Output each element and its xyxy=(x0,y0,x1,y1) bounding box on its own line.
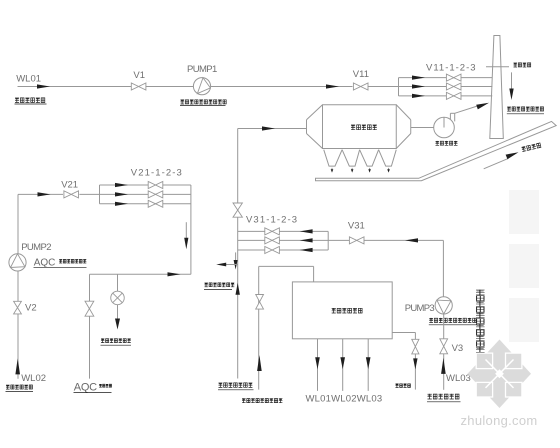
flow arrow before V11 xyxy=(326,84,339,88)
valve on AQC riser xyxy=(85,301,94,309)
valve V21-1 xyxy=(148,182,155,189)
caption tank overflow xyxy=(396,384,411,388)
caption tank makeup water xyxy=(242,398,282,403)
tank outlet arrow 1 xyxy=(315,357,320,369)
watermark ghost column xyxy=(509,190,539,234)
pump PUMP2 xyxy=(9,254,26,271)
hopper 1 discharge arrow xyxy=(331,168,333,170)
fan discharge duct arrow xyxy=(455,106,477,113)
title kiln head waste gas spray process flow xyxy=(476,290,485,353)
svg-text:V11: V11 xyxy=(353,69,369,80)
flow arrow V31-1 xyxy=(300,229,313,233)
svg-text:V21: V21 xyxy=(61,180,78,191)
ESP body box xyxy=(323,105,397,149)
manifold pipe V11-3 xyxy=(399,95,493,97)
caption waste into grate cooler xyxy=(205,283,235,287)
ESP outlet stub xyxy=(410,120,412,134)
label fan xyxy=(436,141,458,146)
pipe PUMP2 to V2 xyxy=(17,271,19,302)
svg-text:V31-1-2-3: V31-1-2-3 xyxy=(246,215,298,226)
svg-text:WL01: WL01 xyxy=(16,73,41,84)
caption grate cooler outlet gas xyxy=(219,383,253,388)
pipe V31 to corner xyxy=(364,239,444,241)
svg-text:V21-1-2-3: V21-1-2-3 xyxy=(131,168,183,179)
caption material into stack bottom xyxy=(507,107,543,112)
svg-text:V2: V2 xyxy=(25,302,37,313)
svg-text:PUMP3: PUMP3 xyxy=(405,303,435,314)
flow meter circle-X xyxy=(111,291,125,305)
tank outlet arrow 2 xyxy=(340,357,345,369)
ESP left hood xyxy=(307,105,323,120)
svg-text:PUMP1: PUMP1 xyxy=(187,64,217,75)
valve V11-2 xyxy=(446,83,453,90)
annotation down arrow beside collector xyxy=(185,222,187,238)
flow arrow toward V31 xyxy=(405,238,418,242)
flow arrow on WL01 pipe xyxy=(37,84,50,88)
AQC riser xyxy=(89,274,91,378)
pipe V3 to WL03 xyxy=(443,354,445,390)
valve V11 xyxy=(353,83,360,90)
svg-text:V31: V31 xyxy=(348,220,365,231)
drain pipe below meter xyxy=(117,305,119,320)
flow arrow V21-3 xyxy=(115,202,128,206)
manifold pipe V31-2 xyxy=(238,239,329,241)
flow up arrow on return riser xyxy=(257,355,262,371)
valve V21-3 xyxy=(148,200,155,207)
flow arrow V11-1 xyxy=(412,76,425,80)
manifold merge header V31 xyxy=(327,231,329,250)
pipe V21 to split xyxy=(79,193,99,195)
svg-text:V3: V3 xyxy=(452,343,464,354)
label tank xyxy=(332,308,362,313)
caption tank under WL02 xyxy=(6,385,32,390)
annotation arrow into stack base xyxy=(511,72,513,89)
tank waste gas spray water xyxy=(292,282,392,339)
duct riser from grate cooler xyxy=(237,129,239,379)
svg-text:WL01WL02WL03: WL01WL02WL03 xyxy=(306,394,383,405)
valve V31-1 xyxy=(265,228,272,235)
ESP inlet stub xyxy=(306,120,308,134)
annotation down arrow beside duct xyxy=(235,252,237,261)
manifold pipe V21-2 xyxy=(100,193,191,195)
caption waste to drag conveyor xyxy=(101,338,131,342)
ESP hopper 4 xyxy=(379,150,397,166)
svg-text:V1: V1 xyxy=(133,70,145,81)
valve V1 xyxy=(131,83,138,90)
overflow valve xyxy=(412,339,419,346)
pipe AQC header xyxy=(90,273,191,275)
conveyor band xyxy=(316,121,557,180)
tank outlet pipe 3 xyxy=(367,339,369,391)
tank outlet pipe 2 xyxy=(342,339,344,391)
waste discharge arrow to grate cooler xyxy=(226,264,238,266)
pipe PUMP1 to V11 xyxy=(211,86,353,88)
monitoring tick line xyxy=(486,66,509,68)
ESP right hood xyxy=(396,105,411,120)
flow arrow before V21 xyxy=(38,192,51,196)
tank outlet pipe 1 xyxy=(317,339,319,391)
manifold pipe V11-2 xyxy=(399,86,493,88)
flow arrow V21-1 xyxy=(115,183,128,187)
svg-text:V11-1-2-3: V11-1-2-3 xyxy=(426,63,477,74)
manifold split header V21 xyxy=(99,185,101,204)
hopper 4 discharge arrow xyxy=(388,168,390,170)
ESP hopper 3 xyxy=(360,150,379,166)
watermark snowflake logo xyxy=(468,340,532,409)
pump PUMP1 xyxy=(193,78,210,95)
manifold pipe V21-3 xyxy=(100,203,191,205)
pipe WL01 to V1 xyxy=(18,86,132,88)
drain arrow xyxy=(115,319,120,330)
hopper 2 discharge arrow xyxy=(351,168,353,170)
manifold pipe V11-1 xyxy=(399,77,493,79)
svg-text:PUMP2: PUMP2 xyxy=(21,242,51,253)
ESP hopper 2 xyxy=(342,150,360,166)
ESP hopper 1 xyxy=(324,150,342,166)
pipe V2 to WL02 xyxy=(17,314,19,379)
caption grate cooler outlet spray pump xyxy=(429,318,476,323)
valve V31 xyxy=(349,237,356,244)
manifold pipe V31-1 xyxy=(238,230,329,232)
label to clinker silo xyxy=(521,143,541,152)
damper valve on duct xyxy=(233,203,242,210)
label tank under WL01 xyxy=(15,98,45,103)
valve V21 xyxy=(64,191,71,198)
fan outlet stub xyxy=(449,113,451,119)
flow up arrow WL02 xyxy=(15,358,20,374)
caption tank under WL03 xyxy=(428,394,460,400)
flow arrow V31-3 xyxy=(300,248,313,252)
valve V11-3 xyxy=(446,92,453,99)
flow arrow into ESP xyxy=(262,126,275,130)
overflow down arrow xyxy=(413,358,417,369)
pipe PUMP3 to V3 xyxy=(443,314,445,339)
manifold pipe V21-1 xyxy=(100,184,191,186)
svg-text:AQC: AQC xyxy=(74,381,97,393)
svg-text:WL02: WL02 xyxy=(21,373,46,384)
valve V2 xyxy=(14,301,22,307)
hopper 3 discharge arrow xyxy=(369,168,371,170)
pipe duct to ESP inlet xyxy=(238,128,307,130)
conveyor flow arrow xyxy=(484,159,508,169)
manifold split header xyxy=(398,78,400,96)
pump PUMP3 xyxy=(435,297,452,314)
return riser pipe xyxy=(258,266,260,389)
pipe V1 to PUMP1 xyxy=(146,86,194,88)
gas up arrow on duct xyxy=(236,283,240,295)
tank outlet arrow 3 xyxy=(366,357,371,369)
pipe ESP to fan xyxy=(411,127,434,129)
flow arrow V31-2 xyxy=(300,238,313,242)
flow arrow on AQC header xyxy=(168,272,181,276)
overflow pipe xyxy=(392,332,415,334)
label ESP xyxy=(351,125,377,130)
valve V31-2 xyxy=(265,237,272,244)
pipe down to PUMP3 xyxy=(442,240,444,297)
flow arrow V11-2 xyxy=(412,84,425,88)
fan kiln-head exhaust xyxy=(434,117,455,138)
valve on return riser xyxy=(256,295,264,302)
pipe merge to V31 xyxy=(328,239,349,241)
valve V31-3 xyxy=(265,247,272,254)
valve V3 xyxy=(440,339,448,347)
valve V21-2 xyxy=(148,191,155,198)
spray header collector xyxy=(190,185,192,274)
svg-text:zhulong.com: zhulong.com xyxy=(461,413,538,428)
flow arrow V11-3 xyxy=(412,94,425,98)
flow up arrow WL03 xyxy=(441,358,446,374)
pipe V11 to manifold split xyxy=(368,86,399,88)
manifold pipe V31-3 xyxy=(238,249,329,251)
caption under PUMP1 xyxy=(181,100,227,105)
label monitoring point xyxy=(514,63,531,68)
drain branch pipe xyxy=(117,274,119,291)
pipe corner to V21 xyxy=(18,193,63,195)
svg-text:WL03: WL03 xyxy=(446,373,471,384)
pipe PUMP2 riser to V21 xyxy=(17,194,19,253)
valve V11-1 xyxy=(446,74,453,81)
flow arrow V21-2 xyxy=(115,192,128,196)
chimney stack xyxy=(490,36,504,139)
